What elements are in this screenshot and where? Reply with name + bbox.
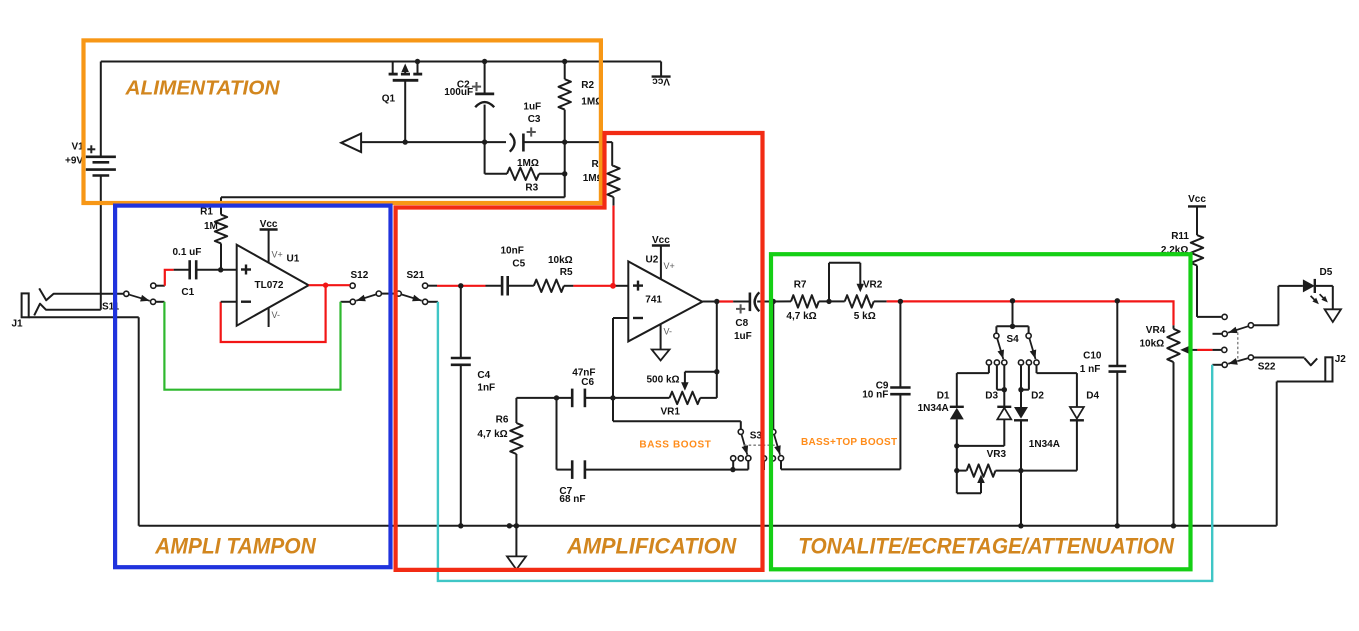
svg-text:1N34A: 1N34A (1029, 439, 1060, 450)
svg-text:C8: C8 (735, 318, 748, 329)
capacitor C10 (1 nF) (1080, 301, 1126, 526)
svg-text:VR1: VR1 (661, 407, 681, 418)
svg-text:R2: R2 (581, 80, 594, 91)
svg-text:VR3: VR3 (987, 449, 1007, 460)
wire S22 to D5 (1278, 286, 1303, 325)
svg-text:VR2: VR2 (863, 280, 883, 291)
svg-text:TL072: TL072 (255, 280, 284, 291)
op-amp U2 (741) (628, 254, 702, 341)
LED D5 (1303, 267, 1333, 304)
wire S3 to C9 (781, 394, 900, 469)
svg-text:D2: D2 (1031, 390, 1044, 401)
resistor R3 (1M&#937;) (485, 142, 565, 193)
resistor R6 (4,7 k&#937;) (477, 398, 522, 526)
jack J2 (1277, 354, 1347, 526)
ground symbol (main) (507, 526, 526, 570)
wire red U2 out to C8 (717, 300, 733, 302)
potentiometer VR4 (10k&#937;) (1140, 325, 1198, 526)
jack J1 (12, 288, 139, 329)
svg-text:1M: 1M (204, 221, 218, 232)
wire R2/R3 node down (564, 142, 566, 197)
svg-text:V+: V+ (664, 261, 675, 271)
capacitor C9 (10 nF) (862, 301, 910, 400)
svg-text:1 nF: 1 nF (1080, 364, 1101, 375)
junction dots (black) (218, 59, 1176, 529)
power symbol Vcc (U1) (260, 219, 278, 263)
potentiometer VR3 (957, 446, 1021, 493)
wire U2 output (702, 301, 717, 303)
wire red R4 to U2 plus (612, 206, 614, 286)
wire S4 to D3 (997, 366, 1004, 407)
svg-text:R7: R7 (794, 280, 807, 291)
svg-text:U1: U1 (287, 254, 300, 265)
svg-text:R6: R6 (496, 414, 509, 425)
svg-text:BASS+TOP BOOST: BASS+TOP BOOST (801, 437, 897, 448)
svg-text:ALIMENTATION: ALIMENTATION (124, 78, 280, 100)
svg-text:BASS BOOST: BASS BOOST (639, 440, 711, 451)
resistor R4 (1M&#937;) (583, 142, 620, 206)
svg-text:+9V: +9V (65, 156, 83, 167)
capacitor C3 (1uF) (510, 102, 541, 152)
svg-text:1uF: 1uF (734, 331, 752, 342)
svg-text:R11: R11 (1171, 231, 1189, 242)
section box TONALITE (green) (771, 254, 1191, 569)
diode D4 (1021, 390, 1100, 470)
svg-text:D1: D1 (937, 390, 950, 401)
wire cyan bypass (438, 302, 1212, 581)
wire U2 inverting input (613, 318, 628, 398)
svg-text:D4: D4 (1086, 390, 1099, 401)
wire S3 dashed link (744, 444, 778, 446)
wire red R5 to U2 (573, 285, 628, 287)
svg-text:C6: C6 (581, 377, 594, 388)
junction dots (red) (323, 283, 616, 289)
wire black U1 minus stub (221, 301, 237, 303)
capacitor C1 (0.1uF) (173, 247, 237, 298)
wire ground rail (139, 525, 1277, 527)
label BASS BOOST (639, 440, 711, 451)
potentiometer VR2 (5 k&#937;) (829, 263, 887, 322)
switch S12 (341, 270, 396, 305)
resistor R1 (1M) (200, 206, 227, 269)
svg-text:V-: V- (664, 327, 673, 337)
wire red VR4 wiper to S22 (1197, 349, 1212, 351)
svg-text:C3: C3 (528, 114, 541, 125)
switch S3 (right half) (761, 302, 783, 471)
wire Vref horizontal (361, 141, 612, 143)
svg-text:68 nF: 68 nF (559, 494, 585, 505)
svg-text:10kΩ: 10kΩ (548, 255, 573, 266)
node arrow (Vref, pointing left) (341, 134, 361, 152)
svg-text:5 kΩ: 5 kΩ (854, 311, 876, 322)
wire S4 to D1 (957, 366, 989, 407)
section label AMPLIFICATION (566, 533, 737, 558)
ground symbol (U2 V-) (652, 324, 670, 360)
svg-text:S21: S21 (407, 270, 425, 281)
switch S21 (396, 270, 438, 305)
wire J1 sleeve to ground rail (138, 317, 140, 526)
svg-text:AMPLIFICATION: AMPLIFICATION (566, 533, 737, 558)
svg-text:C4: C4 (477, 370, 490, 381)
svg-text:C5: C5 (512, 258, 525, 269)
section box ALIMENTATION (orange) (84, 40, 601, 203)
capacitor C6 (47nF) (516, 368, 613, 408)
svg-text:1MΩ: 1MΩ (517, 158, 539, 169)
power symbol Vcc (U2) (652, 235, 670, 279)
section box AMPLIFICATION (red) (396, 133, 763, 570)
svg-text:R5: R5 (560, 267, 573, 278)
wire S4 to D2 (1021, 366, 1029, 407)
diode D1 (1N34A) (918, 390, 964, 446)
wire red S11 to C1 (165, 270, 174, 286)
svg-text:Vcc: Vcc (652, 76, 670, 87)
svg-text:TONALITE/ECRETAGE/ATTENUATION: TONALITE/ECRETAGE/ATTENUATION (798, 533, 1175, 558)
svg-text:J1: J1 (12, 319, 24, 330)
svg-text:U2: U2 (646, 254, 659, 265)
wire red S21 to C5 (437, 285, 486, 287)
resistor R2 (1M&#937;) (559, 62, 604, 143)
capacitor C2 (100uF) (444, 62, 494, 143)
svg-text:R3: R3 (525, 183, 538, 194)
power symbol Vcc (inverted, top right) (652, 62, 671, 87)
svg-text:1nF: 1nF (477, 383, 495, 394)
capacitor C8 (1uF) (733, 292, 773, 342)
resistor R11 (2,2k&#937;) (1161, 231, 1222, 317)
diode D2 (1N34A) (1014, 390, 1060, 526)
capacitor C7 (68 nF) (557, 398, 733, 505)
battery V1 (+9V) (65, 62, 116, 310)
svg-text:V+: V+ (272, 250, 283, 260)
switch S22 (1212, 314, 1304, 372)
wire minus node to S3 (613, 398, 741, 429)
svg-text:100uF: 100uF (444, 87, 473, 98)
svg-text:10 nF: 10 nF (862, 390, 888, 401)
wire red U1 output (309, 284, 350, 286)
wire green bypass loop (164, 302, 340, 390)
node arrow (D5, pointing down) (1325, 286, 1341, 322)
svg-text:S22: S22 (1258, 362, 1276, 373)
capacitor C4 (1nF) (451, 286, 495, 526)
label BASS+TOP BOOST (801, 437, 897, 448)
section label ALIMENTATION (124, 78, 280, 100)
wire output to VR1 (716, 302, 718, 398)
resistor R5 (10k&#937;) (534, 255, 574, 292)
svg-text:D3: D3 (985, 390, 998, 401)
switch S4 (986, 301, 1039, 365)
svg-text:10nF: 10nF (501, 246, 524, 257)
diode D3 (957, 390, 1012, 446)
section label TONALITE/ECRETAGE/ATTENUATION (798, 533, 1175, 558)
capacitor C5 (10nF) (486, 246, 534, 296)
svg-text:C10: C10 (1083, 351, 1102, 362)
svg-text:500 kΩ: 500 kΩ (647, 374, 680, 385)
svg-text:D5: D5 (1320, 267, 1333, 278)
svg-text:S12: S12 (351, 270, 369, 281)
svg-text:741: 741 (645, 294, 662, 305)
switch S11 (102, 283, 165, 312)
section box AMPLI TAMPON (blue) (115, 206, 390, 568)
wire S4 to D4 (1037, 366, 1077, 407)
wire bias to R1 (221, 197, 565, 214)
wire top rail Vcc (101, 61, 661, 63)
wire red U1 feedback (221, 285, 326, 342)
transistor Q1 (382, 62, 423, 143)
svg-text:Q1: Q1 (382, 94, 396, 105)
potentiometer VR1 (500 k&#937;) (613, 372, 717, 418)
wire red VR2 to VR4 (887, 301, 1174, 325)
svg-text:V-: V- (272, 310, 281, 320)
svg-text:C1: C1 (181, 287, 194, 298)
svg-text:1N34A: 1N34A (918, 403, 949, 414)
svg-text:4,7 kΩ: 4,7 kΩ (477, 429, 507, 440)
svg-text:VR4: VR4 (1146, 325, 1166, 336)
svg-text:4,7 kΩ: 4,7 kΩ (786, 311, 816, 322)
svg-text:10kΩ: 10kΩ (1140, 339, 1165, 350)
svg-text:AMPLI TAMPON: AMPLI TAMPON (154, 533, 317, 558)
svg-text:R1: R1 (200, 206, 213, 217)
svg-text:S4: S4 (1007, 334, 1020, 345)
resistor R7 (4,7 k&#937;) (773, 280, 829, 323)
op-amp U1 (TL072) (237, 245, 309, 327)
svg-text:J2: J2 (1335, 354, 1347, 365)
svg-text:1uF: 1uF (523, 102, 541, 113)
section label AMPLI TAMPON (154, 533, 317, 558)
svg-text:Vcc: Vcc (1188, 194, 1206, 205)
svg-text:0.1 uF: 0.1 uF (173, 247, 202, 258)
power symbol Vcc (R11) (1188, 194, 1206, 235)
switch S3 (left half) (731, 429, 763, 469)
